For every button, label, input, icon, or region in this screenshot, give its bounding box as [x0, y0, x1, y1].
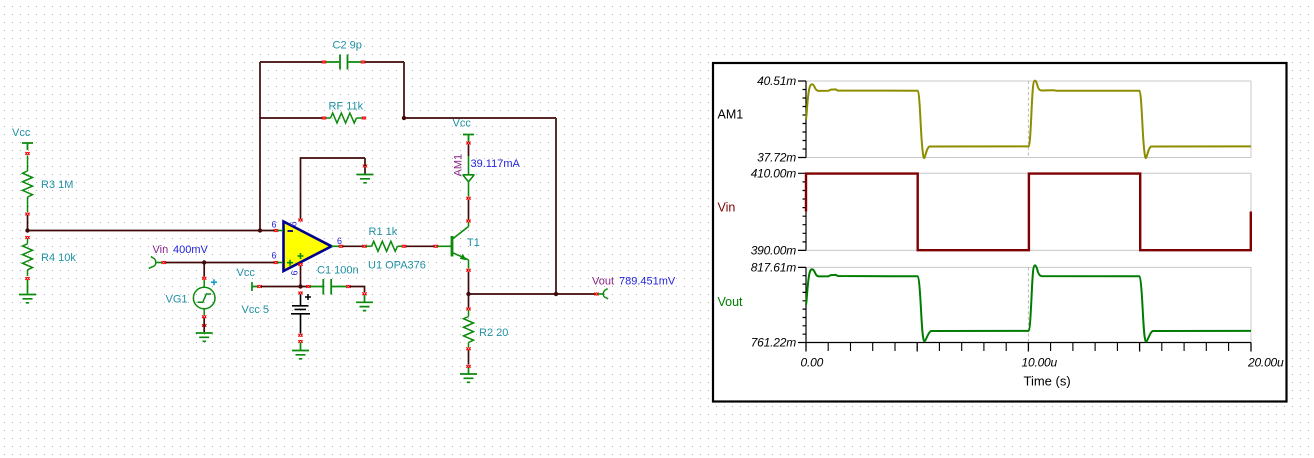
svg-text:37.72m: 37.72m: [757, 151, 796, 165]
wire Vcc bus: [261, 286, 307, 288]
svg-text:R2 20: R2 20: [479, 327, 508, 339]
Vcc bar symbol (AM1 branch): [463, 135, 474, 142]
resistor RF body: [326, 113, 362, 123]
svg-text:C1 100n: C1 100n: [317, 265, 359, 277]
AM1 waveform: [806, 81, 1251, 159]
pin cross RF left: [322, 117, 326, 120]
pin cross R2 gnd: [466, 365, 470, 368]
pin cross R3-node: [25, 213, 29, 216]
pin stub non-inv input: [278, 262, 284, 264]
Vin input port symbol: [149, 257, 156, 269]
pin cross supply ground: [363, 165, 367, 168]
pin cross op-amp inv input: [274, 229, 278, 232]
pin cross op-amp bottom supply: [298, 263, 302, 266]
node D (Vin/VG1): [202, 260, 206, 264]
pin cross Vcc port: [257, 285, 261, 288]
svg-text:40.51m: 40.51m: [757, 74, 796, 88]
pin cross VG1 gnd: [202, 324, 206, 327]
svg-text:VG1: VG1: [166, 294, 188, 306]
wire bottom supply to bus: [300, 266, 302, 287]
x-axis minor ticks: [828, 343, 1228, 352]
pin cross op-amp non-inv input: [274, 261, 278, 264]
svg-text:Vcc 5: Vcc 5: [242, 304, 270, 316]
resistor R1 body: [366, 241, 402, 251]
wire R3 to node: [27, 215, 29, 231]
wire node to R2: [468, 294, 470, 308]
ground (C1): [356, 302, 373, 310]
svg-text:6: 6: [289, 221, 299, 226]
x-axis major ticks: [806, 343, 1251, 352]
T1 emitter arrow: [460, 254, 467, 260]
svg-text:RF 11k: RF 11k: [329, 101, 364, 113]
svg-text:761.22m: 761.22m: [751, 335, 797, 349]
pin cross T1 emitter: [466, 269, 470, 272]
wire C1 to ground: [350, 287, 365, 293]
node G (feedback/Vout): [554, 292, 558, 296]
ground (battery): [292, 351, 309, 359]
Vcc jumper port: [252, 282, 258, 291]
Vout waveform: [806, 265, 1251, 341]
transistor T1: [438, 223, 469, 269]
pin cross R2 top: [466, 308, 470, 311]
wire battery to ground: [300, 343, 302, 351]
svg-text:Vcc: Vcc: [237, 267, 256, 279]
svg-text:T1: T1: [467, 237, 480, 249]
svg-text:817.61m: 817.61m: [751, 260, 797, 274]
pin cross C1 left: [306, 285, 310, 288]
pin stub output: [332, 245, 340, 247]
wire feedback left vertical: [259, 62, 261, 231]
VG1 source body: [193, 280, 215, 315]
svg-text:410.00m: 410.00m: [751, 166, 797, 180]
svg-text:6: 6: [337, 236, 342, 246]
pin cross Vcc-AM1: [466, 142, 470, 145]
svg-text:R1 1k: R1 1k: [369, 226, 398, 238]
Vin subplot gridlines: [806, 173, 1251, 250]
wire top supply to ground: [301, 158, 366, 219]
wire VG1 to ground: [203, 318, 205, 332]
svg-text:Vin: Vin: [153, 244, 169, 256]
pin cross C2 right: [361, 61, 365, 64]
pin cross node-R4: [25, 236, 29, 239]
capacitor C2 body: [326, 55, 361, 70]
svg-text:R4 10k: R4 10k: [41, 252, 76, 264]
AM1 y-axis: [798, 81, 806, 158]
resistor R4 body: [23, 239, 33, 276]
pin cross C2 left: [322, 61, 326, 64]
op-amp plus mark (supply): [298, 253, 304, 259]
AM1 subplot gridlines: [806, 81, 1251, 158]
svg-text:Vcc: Vcc: [12, 127, 31, 139]
op-amp minus mark: [288, 230, 294, 232]
pin cross battery gnd: [298, 340, 302, 343]
pin cross op-amp output: [339, 245, 343, 248]
wire C2 left: [260, 61, 322, 63]
svg-text:Vout: Vout: [592, 276, 614, 288]
wire R4 to ground: [27, 280, 29, 294]
svg-text:U1 OPA376: U1 OPA376: [368, 260, 426, 272]
pin cross battery bottom: [298, 334, 302, 337]
svg-text:6: 6: [272, 220, 277, 230]
ground (left column): [19, 295, 36, 303]
battery plus mark: [305, 294, 311, 300]
wire VG1 top: [203, 263, 205, 277]
resistor R2 body: [464, 311, 474, 348]
node A (R3/R4 junction): [25, 228, 29, 232]
wire stub supply gnd: [364, 158, 366, 174]
pin cross AM1 bottom: [466, 197, 470, 200]
plot panel frame: [713, 63, 1287, 402]
svg-text:R3 1M: R3 1M: [41, 179, 73, 191]
resistor R3 body: [23, 156, 33, 213]
svg-text:Time (s): Time (s): [1024, 374, 1071, 389]
svg-text:789.451mV: 789.451mV: [619, 276, 676, 288]
pin cross battery top: [298, 292, 302, 295]
svg-text:Vcc: Vcc: [453, 118, 472, 130]
wire non-inv net: [165, 262, 275, 264]
node E (supply bus): [298, 284, 302, 288]
Vout output port symbol: [603, 289, 608, 299]
svg-text:C2 9p: C2 9p: [333, 40, 362, 52]
wire AM1 to collector: [468, 200, 470, 220]
wire R2 to ground: [468, 350, 470, 365]
wire feedback top-right run: [404, 118, 556, 294]
Vin waveform: [806, 174, 1251, 251]
Vout subplot gridlines: [806, 267, 1251, 342]
Vcc bar symbol left column: [22, 143, 33, 150]
pin cross R4-gnd: [25, 277, 29, 280]
wire stub R2 gnd: [468, 368, 470, 374]
Vout y-axis: [798, 267, 806, 342]
ground (op-amp supply): [357, 175, 374, 183]
ammeter AM1 body: [463, 156, 475, 197]
wire inverting net (node to op-amp): [28, 230, 275, 232]
wire R1 to base: [406, 245, 434, 247]
svg-text:0.00: 0.00: [801, 355, 824, 369]
pin cross Vcc-R3: [25, 152, 29, 155]
svg-text:20.00u: 20.00u: [1247, 355, 1284, 369]
ground (VG1): [196, 333, 213, 341]
pin cross Vin port: [162, 261, 166, 264]
svg-text:39.117mA: 39.117mA: [471, 158, 521, 170]
svg-text:AM1: AM1: [453, 154, 465, 177]
wire output to R1: [343, 245, 363, 247]
svg-text:Vout: Vout: [718, 295, 744, 309]
pin stub inv input: [278, 230, 284, 232]
pin cross R1 right: [402, 245, 406, 248]
pin cross R2 bottom: [466, 347, 470, 350]
Vout cursor dashed line: [1027, 267, 1029, 342]
pin stub Vout port: [598, 293, 603, 295]
battery Vcc5 body: [291, 295, 310, 334]
svg-text:400mV: 400mV: [173, 244, 209, 256]
wire emitter to Vout node: [468, 272, 470, 294]
svg-text:390.00m: 390.00m: [751, 243, 797, 257]
pin cross C1 gnd: [362, 292, 366, 295]
op-amp plus mark (input): [287, 260, 293, 266]
wire Vout run: [469, 293, 595, 295]
capacitor C1 body: [310, 279, 347, 295]
svg-text:10.00u: 10.00u: [1022, 355, 1058, 369]
node B (feedback tap): [258, 228, 262, 232]
svg-text:AM1: AM1: [718, 108, 744, 122]
Vin y-axis: [798, 173, 806, 250]
ground (R2): [460, 374, 477, 382]
x-axis line: [806, 342, 1251, 344]
AM1 cursor dashed line: [1027, 81, 1029, 158]
op-amp U1 body: [284, 222, 332, 272]
pin cross T1 base: [434, 245, 438, 248]
pin cross Vout port: [594, 293, 598, 296]
node F (emitter/Vout): [466, 292, 470, 296]
pin stub Vin port: [156, 262, 162, 264]
pin cross T1 collector: [466, 220, 470, 223]
pin cross C1 right: [346, 285, 350, 288]
pin cross VG1 bottom: [202, 315, 206, 318]
svg-text:Vin: Vin: [718, 201, 736, 215]
VG1 plus mark: [211, 279, 217, 285]
wire C2 right: [365, 62, 404, 118]
svg-text:6: 6: [290, 270, 300, 275]
wire stub C1 gnd: [364, 295, 366, 302]
pin cross op-amp top supply: [298, 219, 302, 222]
wire Vcc to AM1: [468, 145, 470, 157]
svg-text:6: 6: [272, 251, 277, 261]
node C (RF/C2 right junction): [402, 116, 406, 120]
pin cross RF right: [362, 117, 366, 120]
pin cross VG1 top: [202, 277, 206, 280]
pin cross R1 left: [362, 245, 366, 248]
wire RF left: [260, 117, 322, 119]
